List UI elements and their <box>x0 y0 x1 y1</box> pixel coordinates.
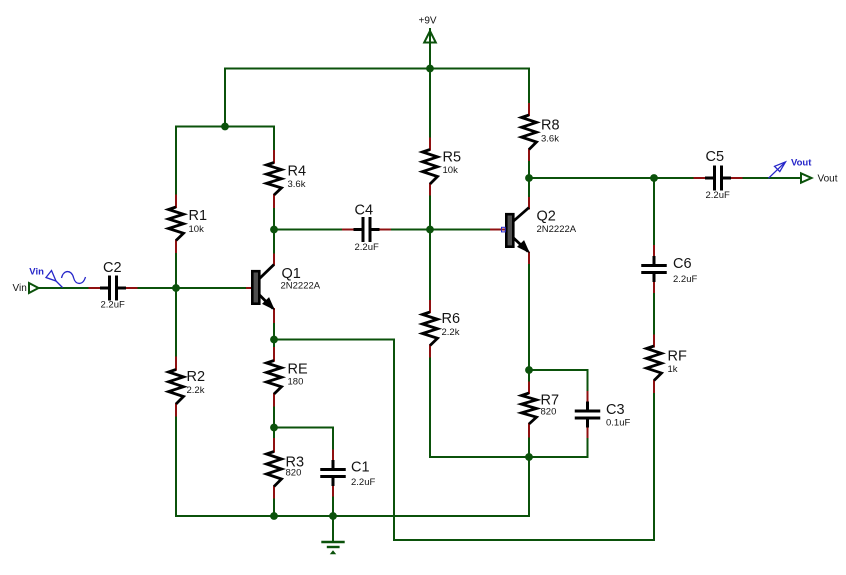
svg-text:3.6k: 3.6k <box>288 179 306 190</box>
wire left drop from rail <box>224 69 226 127</box>
wire R1-R4 top rail <box>176 126 274 128</box>
pin C5 left lead <box>695 177 706 179</box>
pin R2 top lead <box>175 358 177 370</box>
svg-text:Vin: Vin <box>29 267 44 278</box>
svg-text:2.2uF: 2.2uF <box>101 300 125 311</box>
pin C3 top lead <box>587 392 589 403</box>
transistor Q2 collector stroke <box>513 208 529 222</box>
svg-text:820: 820 <box>286 468 302 479</box>
wire R2 bottom + bottom ground rail <box>176 416 529 517</box>
pin Q2 emitter lead <box>528 253 530 264</box>
resistor R4 <box>267 163 282 196</box>
capacitor C4 plates <box>354 217 380 242</box>
pin C2 left lead <box>90 287 101 289</box>
transistor Q2 emitter stroke <box>513 238 528 252</box>
Q2 base pin marker (blue) <box>502 227 506 232</box>
wire R7 bottom <box>528 437 530 458</box>
pin C6 top lead <box>653 246 655 256</box>
pin C1 top lead <box>332 451 334 461</box>
svg-text:R1: R1 <box>189 208 208 224</box>
wire RE bottom <box>273 406 275 428</box>
wire C5 to Vout terminal <box>742 177 802 179</box>
pin C1 bottom lead <box>332 486 334 496</box>
wire R5 top <box>429 69 431 139</box>
wire Q2 collector <box>528 178 530 198</box>
pin C4 left lead <box>343 229 354 231</box>
pin RE top lead <box>273 348 275 361</box>
svg-text:Vout: Vout <box>818 174 838 185</box>
wire C2 to node <box>137 287 177 289</box>
pin R3 bottom lead <box>273 487 275 498</box>
wire C1 branch <box>274 428 333 451</box>
junction node Q2 emitter / R7 / C3 <box>525 366 533 374</box>
capacitor C3 plates <box>575 402 601 428</box>
junction node Q1 collector / C4 <box>270 226 278 234</box>
pin R7 bottom lead <box>528 424 530 437</box>
transistor Q1 collector stroke <box>259 265 274 280</box>
wire R7 top <box>528 370 530 383</box>
wire ground stem <box>332 516 334 542</box>
pin R3 top lead <box>273 439 275 452</box>
wire node to C4 <box>274 229 343 231</box>
pin C4 right lead <box>379 229 390 231</box>
wire R1 top <box>175 127 177 196</box>
pin Q2 base lead <box>491 229 506 231</box>
junction node Q1 emitter / RE / feedback <box>270 336 278 344</box>
svg-text:Vout: Vout <box>791 158 812 169</box>
wire R8 bottom <box>528 160 530 178</box>
resistor R5 <box>423 150 438 185</box>
wire R6 bottom to R7 node <box>430 357 529 458</box>
junction node R1/R4 rail <box>221 123 229 131</box>
svg-text:3.6k: 3.6k <box>541 134 559 145</box>
pin R2 bottom lead <box>175 404 177 416</box>
pin R4 top lead <box>273 151 275 163</box>
svg-text:2N2222A: 2N2222A <box>537 224 577 235</box>
svg-text:C1: C1 <box>351 460 370 476</box>
pin Q1 collector lead <box>273 255 275 265</box>
wire input from Vin terminal <box>38 287 90 289</box>
svg-text:RF: RF <box>668 349 687 365</box>
svg-text:C3: C3 <box>606 402 625 418</box>
svg-text:C6: C6 <box>673 256 692 272</box>
svg-text:2.2k: 2.2k <box>187 385 205 396</box>
junction node C1 / ground <box>329 512 337 520</box>
transistor Q1 emitter stroke <box>259 295 273 309</box>
pin R6 top lead <box>429 301 431 312</box>
wire C3 top branch <box>529 370 588 392</box>
svg-text:2N2222A: 2N2222A <box>281 281 321 292</box>
svg-text:10k: 10k <box>443 165 459 176</box>
svg-text:R6: R6 <box>442 311 461 327</box>
pin R1 bottom lead <box>175 241 177 253</box>
pin R8 top lead <box>528 104 530 115</box>
transistor Q1 base bar <box>252 271 259 304</box>
junction node Q2 collector / R8 <box>525 174 533 182</box>
ground symbol <box>321 542 344 554</box>
transistor Q2 base bar <box>506 214 513 247</box>
power +9V arrow symbol <box>424 31 436 43</box>
wire R4 top <box>273 127 275 152</box>
junction node RE / R3 / C1 <box>270 424 278 432</box>
svg-text:2.2uF: 2.2uF <box>351 477 375 488</box>
capacitor C2 plates <box>100 276 126 301</box>
pin Q2 collector lead <box>528 198 530 209</box>
pin RF bottom lead <box>653 381 655 392</box>
terminal Vout <box>801 173 812 182</box>
svg-text:10k: 10k <box>189 224 205 235</box>
wire output node to C6 <box>653 178 655 246</box>
pin R5 top lead <box>429 139 431 150</box>
wire R6 top <box>429 230 431 302</box>
svg-text:C5: C5 <box>706 149 725 165</box>
wire C4 to mid node <box>390 229 430 231</box>
probe Vin (blue) <box>46 271 86 288</box>
probe Vout (blue) <box>768 162 785 178</box>
resistor R7 <box>522 393 537 424</box>
pin C2 right lead <box>126 287 137 289</box>
svg-text:+9V: +9V <box>419 16 437 27</box>
transistor Q2 emitter arrow <box>518 242 528 252</box>
pin R6 bottom lead <box>429 346 431 357</box>
wire R2 top <box>175 288 177 358</box>
svg-text:2.2uF: 2.2uF <box>706 190 730 201</box>
svg-text:R5: R5 <box>443 150 462 166</box>
wire mid node to Q2 base <box>430 229 491 231</box>
resistor R3 <box>267 452 282 487</box>
pin C3 bottom lead <box>587 427 589 437</box>
pin R4 bottom lead <box>273 195 275 207</box>
pin C6 bottom lead <box>653 282 655 292</box>
wire R8 top <box>528 69 530 105</box>
capacitor C1 plates <box>320 460 346 486</box>
wire C6 to RF <box>653 292 655 337</box>
wire node to Q1 base <box>176 287 247 289</box>
junction node C4 / R5 / R6 / Q2 base <box>426 226 434 234</box>
svg-text:2.2uF: 2.2uF <box>673 274 697 285</box>
junction node C2 / R1 / R2 / Q1 base <box>172 284 180 292</box>
svg-text:C4: C4 <box>355 203 374 219</box>
junction node R3 / ground rail <box>270 512 278 520</box>
pin Q1 emitter lead <box>273 309 275 322</box>
pin RF top lead <box>653 336 655 347</box>
wire C3 bottom branch <box>529 437 588 457</box>
wire output node rail <box>529 177 694 179</box>
terminal Vin <box>29 283 39 293</box>
wire Q1 emitter <box>273 322 275 340</box>
pin R5 bottom lead <box>429 184 431 195</box>
resistor R8 <box>522 115 537 150</box>
pin C5 right lead <box>731 177 742 179</box>
wire Q2 emitter down <box>528 263 530 370</box>
svg-text:2.2uF: 2.2uF <box>355 242 379 253</box>
resistor R2 <box>169 370 184 405</box>
wire R1 bottom to node <box>175 252 177 288</box>
svg-text:180: 180 <box>288 377 304 388</box>
wire RE top <box>273 340 275 349</box>
wire top power rail <box>225 68 529 70</box>
wire feedback path Q1 emitter to RF <box>274 340 654 541</box>
wire C1 bottom <box>332 496 334 517</box>
svg-text:R2: R2 <box>187 369 206 385</box>
pin R1 top lead <box>175 196 177 208</box>
wire R3 bottom <box>273 498 275 517</box>
svg-text:0.1uF: 0.1uF <box>606 418 630 429</box>
capacitor C6 plates <box>641 256 667 282</box>
svg-text:2.2k: 2.2k <box>442 327 460 338</box>
wire Q1 collector <box>273 230 275 255</box>
wire R3 top <box>273 428 275 440</box>
svg-text:Q2: Q2 <box>537 209 556 225</box>
pin R7 top lead <box>528 383 530 394</box>
resistor RE <box>267 361 282 395</box>
svg-text:R4: R4 <box>288 164 307 180</box>
junction node at +9V rail <box>426 65 434 73</box>
svg-text:RE: RE <box>288 362 308 378</box>
wire R5 bottom <box>429 195 431 230</box>
pin RE bottom lead <box>273 394 275 406</box>
wire R7 node to ground rail <box>528 457 530 516</box>
svg-text:1k: 1k <box>668 364 678 375</box>
svg-text:Vin: Vin <box>13 283 27 294</box>
transistor Q1 emitter arrow <box>263 299 273 309</box>
resistor R6 <box>423 312 438 346</box>
pin Q1 base lead <box>247 287 252 289</box>
capacitor C5 plates <box>705 166 731 191</box>
wire +9V stem <box>429 29 431 69</box>
wire R4 bottom to collector node <box>273 207 275 230</box>
junction node output / C6 <box>650 174 658 182</box>
svg-text:820: 820 <box>541 407 557 418</box>
junction node R7 / C3 / R6 bottom <box>525 453 533 461</box>
resistor RF <box>647 346 662 381</box>
pin R8 bottom lead <box>528 150 530 161</box>
svg-text:C2: C2 <box>103 260 122 276</box>
svg-text:R8: R8 <box>541 117 560 133</box>
resistor R1 <box>169 207 184 241</box>
